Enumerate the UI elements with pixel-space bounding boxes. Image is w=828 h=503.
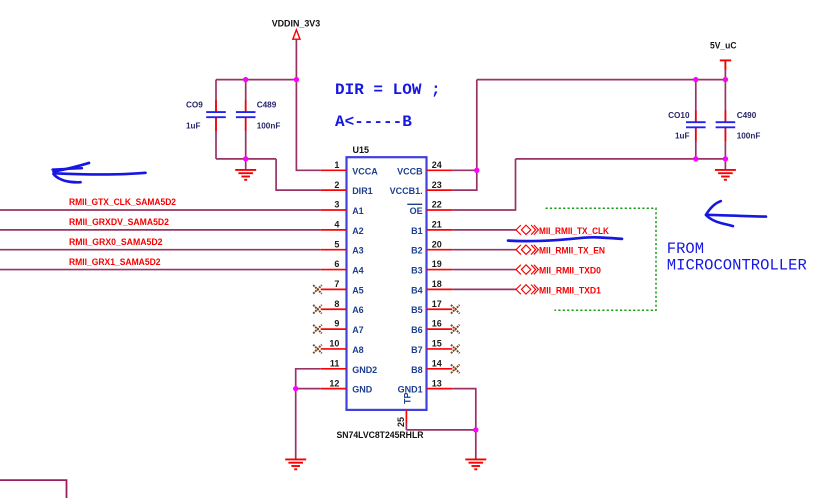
svg-text:8: 8 [334, 299, 339, 309]
svg-text:MICROCONTROLLER: MICROCONTROLLER [667, 256, 807, 274]
svg-text:GND2: GND2 [352, 365, 377, 375]
pin 12 GND stub [321, 388, 347, 390]
svg-text:VCCB1.: VCCB1. [390, 186, 423, 196]
svg-text:A1: A1 [352, 206, 364, 216]
pin 3 A1 stub [321, 209, 347, 211]
border frame corner [0, 480, 67, 498]
svg-text:SN74LVC8T245RHLR: SN74LVC8T245RHLR [337, 430, 425, 440]
svg-text:A7: A7 [352, 325, 364, 335]
pin 23 VCCB1. stub [427, 189, 453, 191]
wire C489 branch [245, 80, 247, 113]
svg-text:B2: B2 [411, 246, 423, 256]
wire net RMII_GTX_CLK_SAMA5D2 [0, 209, 321, 211]
power symbol 5V_uC [710, 40, 737, 70]
ground G1 under C489 [235, 159, 256, 180]
wire thermal pad pin 25 [405, 423, 407, 430]
hand-drawn arrow left [53, 163, 146, 182]
svg-text:A5: A5 [352, 285, 364, 295]
wire top-right rail 5V_uC [477, 79, 726, 81]
svg-text:4: 4 [334, 220, 339, 230]
pin 9 A7 stub [321, 328, 347, 330]
pin 19 B3 stub [427, 269, 453, 271]
svg-text:7: 7 [334, 279, 339, 289]
svg-text:100nF: 100nF [737, 131, 761, 140]
svg-text:5V_uC: 5V_uC [710, 40, 737, 50]
off-page port MII_RMII_TX_EN [516, 245, 605, 257]
wire CO10 branch [695, 80, 697, 123]
ground G3 [285, 458, 306, 460]
svg-text:100nF: 100nF [257, 121, 281, 130]
svg-text:RMII_GTX_CLK_SAMA5D2: RMII_GTX_CLK_SAMA5D2 [69, 197, 176, 208]
svg-text:6: 6 [334, 259, 339, 269]
svg-text:18: 18 [432, 279, 442, 289]
wire VCCB vertical [452, 80, 477, 191]
pin 22 OE stub [427, 209, 453, 211]
wire to port MII_RMII_TX_EN [452, 249, 516, 251]
no-connect X pins 14-17 [451, 305, 460, 314]
wire GND pin 12 [296, 388, 321, 390]
svg-text:B6: B6 [411, 325, 423, 335]
off-page port MII_RMII_TXD1 [516, 285, 602, 297]
svg-text:1uF: 1uF [675, 131, 690, 140]
svg-text:MII_RMII_TXD0: MII_RMII_TXD0 [539, 266, 601, 277]
pin 1 VCCA stub [321, 169, 347, 171]
svg-text:A<-----B: A<-----B [335, 113, 412, 131]
no-connect X pins 7-10 [313, 285, 322, 294]
capacitor CO10 1uF [668, 110, 705, 141]
svg-text:DIR = LOW ;: DIR = LOW ; [335, 81, 441, 99]
svg-text:DIR1: DIR1 [352, 186, 373, 196]
svg-text:FROM: FROM [667, 240, 704, 258]
wire GND1 pin 13 [452, 389, 476, 460]
svg-text:B3: B3 [411, 266, 423, 276]
svg-text:B4: B4 [411, 285, 423, 295]
svg-text:VDDIN_3V3: VDDIN_3V3 [272, 18, 321, 28]
svg-text:16: 16 [432, 319, 442, 329]
svg-text:VCCB: VCCB [397, 166, 423, 176]
wire DIR1 to GND rail [276, 159, 321, 190]
junction dots right rails [693, 77, 698, 82]
svg-text:A2: A2 [352, 226, 364, 236]
wire 5V_uC lead [724, 70, 726, 80]
svg-text:RMII_GRX1_SAMA5D2: RMII_GRX1_SAMA5D2 [69, 257, 161, 268]
svg-text:1uF: 1uF [186, 121, 201, 130]
svg-text:MII_RMII_TX_EN: MII_RMII_TX_EN [539, 246, 605, 257]
svg-text:10: 10 [329, 339, 339, 349]
svg-text:B1: B1 [411, 226, 423, 236]
wire VDDIN_3V3 vertical to pin 1 [296, 39, 320, 170]
svg-text:3: 3 [334, 200, 339, 210]
wire bottom-right rail [516, 158, 726, 160]
junction dot GND [293, 386, 298, 391]
svg-text:C490: C490 [737, 111, 757, 120]
wire to port MII_RMII_TXD0 [452, 269, 516, 271]
svg-text:A3: A3 [352, 246, 364, 256]
svg-text:U15: U15 [353, 145, 370, 155]
pin 10 A8 stub [321, 348, 347, 350]
svg-text:13: 13 [432, 378, 442, 388]
wire net RMII_GRX0_SAMA5D2 [0, 249, 321, 251]
svg-text:1: 1 [334, 160, 339, 170]
dashed group box FROM MICROCONTROLLER [546, 208, 657, 310]
pin 4 A2 stub [321, 229, 347, 231]
power symbol VDDIN_3V3 [272, 18, 321, 39]
svg-text:9: 9 [334, 319, 339, 329]
svg-text:11: 11 [330, 358, 340, 368]
pin 11 GND2 stub [321, 368, 347, 370]
svg-text:14: 14 [432, 358, 442, 368]
pin 18 B4 stub [427, 288, 453, 290]
wire GND2 pin 11 [296, 369, 321, 460]
wire C490 branch [724, 80, 726, 123]
pin 13 GND1 stub [427, 388, 453, 390]
svg-text:5: 5 [334, 239, 339, 249]
pin 25 TP stub [405, 410, 407, 423]
svg-text:OE: OE [410, 206, 423, 216]
pin 2 DIR1 stub [321, 189, 347, 191]
svg-text:MII_RMII_TXD1: MII_RMII_TXD1 [539, 285, 602, 296]
pin 17 B5 stub [427, 308, 453, 310]
hand-drawn underline MII_RMII_TX_CLK [508, 237, 622, 241]
pin 7 A5 stub [321, 288, 347, 290]
wire pin24 link [452, 169, 477, 171]
wire to port MII_RMII_TXD1 [452, 288, 516, 290]
svg-text:15: 15 [432, 339, 442, 349]
wire net RMII_GRXDV_SAMA5D2 [0, 229, 321, 231]
svg-text:19: 19 [432, 259, 442, 269]
svg-text:TP: TP [403, 392, 413, 404]
svg-text:RMII_GRXDV_SAMA5D2: RMII_GRXDV_SAMA5D2 [69, 217, 169, 228]
wire to port MII_RMII_TX_CLK [452, 229, 516, 231]
junction dot pin25/GND1 [473, 427, 478, 432]
svg-text:25: 25 [396, 417, 406, 427]
svg-text:B8: B8 [411, 365, 423, 375]
pin 8 A6 stub [321, 308, 347, 310]
wire net RMII_GRX1_SAMA5D2 [0, 269, 321, 271]
pin 20 B2 stub [427, 249, 453, 251]
pin 15 B7 stub [427, 348, 453, 350]
off-page port MII_RMII_TX_CLK [516, 225, 609, 237]
ground G4 [465, 458, 486, 460]
pin 21 B1 stub [427, 229, 453, 231]
pin 14 B8 stub [427, 368, 453, 370]
svg-text:A4: A4 [352, 266, 364, 276]
off-page port MII_RMII_TXD0 [516, 265, 601, 277]
hand-drawn arrow right [706, 201, 766, 226]
svg-text:23: 23 [432, 180, 442, 190]
svg-text:RMII_GRX0_SAMA5D2: RMII_GRX0_SAMA5D2 [69, 237, 163, 248]
svg-text:12: 12 [329, 378, 339, 388]
svg-text:MII_RMII_TX_CLK: MII_RMII_TX_CLK [539, 226, 609, 237]
svg-text:B5: B5 [411, 305, 423, 315]
svg-text:C489: C489 [257, 101, 277, 110]
svg-text:B7: B7 [411, 345, 423, 355]
svg-text:A6: A6 [352, 305, 364, 315]
svg-text:CO10: CO10 [668, 111, 690, 120]
capacitor C489 100nF [236, 100, 280, 131]
pin 6 A4 stub [321, 269, 347, 271]
ground G2 under C490 [715, 159, 736, 180]
wire top-left rail VDDIN_3V3 [216, 79, 296, 81]
pin 5 A3 stub [321, 249, 347, 251]
svg-text:A8: A8 [352, 345, 364, 355]
svg-text:21: 21 [432, 220, 442, 230]
svg-text:22: 22 [432, 200, 442, 210]
wire CO9 branch [215, 80, 217, 113]
capacitor C490 100nF [716, 110, 761, 141]
svg-text:24: 24 [432, 160, 442, 170]
pin 24 VCCB stub [427, 169, 453, 171]
pin 16 B6 stub [427, 328, 453, 330]
svg-text:2: 2 [334, 180, 339, 190]
junction dots left rails [243, 77, 248, 82]
op-amp/IC U15 SN74LVC8T245RHLR body [347, 157, 427, 410]
svg-text:20: 20 [432, 239, 442, 249]
wire OE to GND rail [452, 159, 515, 210]
svg-text:GND: GND [352, 385, 373, 395]
svg-text:CO9: CO9 [186, 101, 203, 110]
svg-text:VCCA: VCCA [352, 166, 378, 176]
capacitor CO9 1uF [186, 100, 226, 131]
wire bottom-left rail [216, 158, 276, 160]
svg-text:17: 17 [432, 299, 442, 309]
